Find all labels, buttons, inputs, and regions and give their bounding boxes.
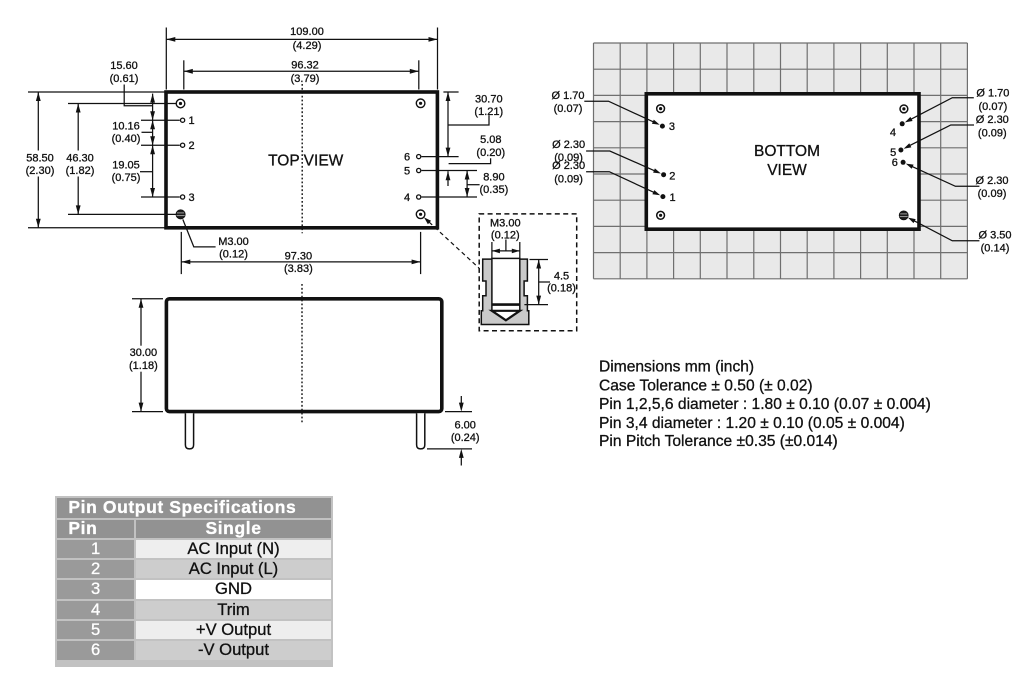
table row pin 1: AC Input (N)	[57, 540, 133, 558]
bottom view mounting hole top-left	[657, 105, 665, 113]
svg-text:(0.35): (0.35)	[480, 184, 509, 196]
svg-text:30.00: 30.00	[130, 347, 158, 359]
svg-text:30.70: 30.70	[475, 94, 503, 106]
bottom view pcb grid	[594, 43, 968, 279]
table header: Pin Output Specifications	[57, 498, 331, 518]
pin output specifications table	[55, 496, 333, 667]
dimension 10.16 (0.40)	[112, 120, 155, 145]
svg-text:(1.82): (1.82)	[66, 165, 95, 177]
top view case outline	[166, 92, 437, 228]
top view mounting hole bottom-left (M3)	[176, 210, 185, 219]
svg-text:Ø 2.30: Ø 2.30	[552, 139, 585, 151]
svg-text:(3.83): (3.83)	[284, 263, 313, 275]
svg-text:(0.09): (0.09)	[554, 173, 583, 185]
svg-text:1: 1	[669, 192, 675, 204]
bottom view pin 1	[660, 192, 675, 204]
svg-text:(1.18): (1.18)	[129, 360, 158, 372]
pin 4	[404, 192, 477, 204]
bottom view pin 6	[892, 157, 906, 169]
svg-text:(0.07): (0.07)	[554, 103, 583, 115]
bottom view mounting hole top-right	[900, 105, 908, 113]
label dia 2.30 (0.09) left upper with leader to pin 2	[552, 139, 661, 173]
pin 3	[141, 192, 195, 204]
svg-text:BOTTOM: BOTTOM	[754, 143, 820, 160]
svg-text:Pin 1,2,5,6 diameter : 1.80 ±: Pin 1,2,5,6 diameter : 1.80 ± 0.10 (0.07…	[599, 396, 931, 413]
side view centerline	[301, 284, 303, 424]
label dia 2.30 (0.09) left lower with leader to pin 1	[552, 160, 660, 195]
dimension 96.32 (3.79)	[184, 58, 419, 90]
svg-text:97.30: 97.30	[285, 251, 313, 263]
mounting hole detail dashed box	[479, 214, 577, 331]
bottom view pin 3	[660, 121, 675, 133]
svg-text:(0.75): (0.75)	[112, 172, 141, 184]
svg-text:10.16: 10.16	[112, 120, 140, 132]
svg-text:TOP VIEW: TOP VIEW	[268, 153, 344, 170]
svg-text:(0.14): (0.14)	[981, 242, 1010, 254]
top view centerline	[301, 84, 303, 233]
label dia 2.30 (0.09) right lower with leader to pin 6	[906, 164, 1009, 200]
pin 1	[141, 115, 195, 127]
dimension 6.00 (0.24)	[427, 396, 480, 466]
dashed leader to mounting hole detail	[424, 217, 479, 268]
top view mounting hole bottom-right	[416, 210, 425, 219]
svg-text:(0.18): (0.18)	[547, 282, 576, 294]
bottom view title	[754, 143, 820, 179]
svg-text:(0.09): (0.09)	[978, 128, 1007, 140]
table row pin 4: Trim	[57, 601, 133, 619]
dimension 97.30 (3.83)	[181, 232, 420, 275]
svg-text:M3.00: M3.00	[218, 236, 249, 248]
svg-text:5: 5	[404, 166, 410, 178]
svg-text:109.00: 109.00	[290, 26, 324, 38]
bottom view pin 4	[890, 121, 905, 139]
svg-text:3: 3	[669, 121, 675, 133]
dimension 5.08 (0.20)	[446, 134, 506, 186]
dimension 30.00 (1.18)	[124, 299, 164, 412]
dimension 8.90 (0.35)	[465, 171, 509, 198]
svg-text:96.32: 96.32	[291, 59, 319, 71]
svg-text:(4.29): (4.29)	[293, 40, 322, 52]
dimension 4.5 (0.18)	[524, 260, 575, 305]
svg-text:58.50: 58.50	[26, 152, 54, 164]
label dia 2.30 (0.09) right upper with leader to pin 5	[904, 114, 1009, 149]
svg-text:Ø 1.70: Ø 1.70	[551, 90, 584, 102]
pin 5	[404, 166, 477, 178]
bottom view case outline	[646, 94, 919, 229]
svg-text:VIEW: VIEW	[767, 162, 807, 179]
pin 2	[141, 140, 195, 152]
bottom view pin 2	[661, 170, 675, 182]
svg-text:3: 3	[188, 192, 194, 204]
pin 6	[404, 152, 459, 164]
svg-text:Dimensions mm (inch): Dimensions mm (inch)	[599, 358, 754, 375]
notes text block	[599, 358, 931, 449]
svg-text:(0.20): (0.20)	[476, 147, 505, 159]
svg-text:(0.12): (0.12)	[219, 248, 248, 260]
table row pin 5: +V Output	[57, 621, 133, 639]
table row pin 3: GND	[57, 580, 133, 598]
svg-text:4: 4	[404, 192, 410, 204]
svg-text:2: 2	[188, 140, 194, 152]
label dia 1.70 (0.07) left with leader to pin 3	[551, 90, 659, 125]
dimension 15.60 (0.61)	[110, 60, 155, 120]
label dia 1.70 (0.07) right with leader to pin 4	[905, 87, 1010, 122]
top view mounting hole top-right	[416, 99, 425, 108]
svg-text:6.00: 6.00	[454, 419, 475, 431]
svg-text:(0.07): (0.07)	[979, 101, 1008, 113]
top view mounting hole top-left	[176, 99, 185, 108]
dimension M3.00 (0.12) bore	[490, 218, 521, 258]
svg-text:Ø 3.50: Ø 3.50	[978, 230, 1011, 242]
svg-text:Ø 1.70: Ø 1.70	[976, 87, 1009, 99]
svg-text:Case Tolerance ± 0.50 (± 0.02): Case Tolerance ± 0.50 (± 0.02)	[599, 378, 813, 395]
svg-text:(0.24): (0.24)	[451, 432, 480, 444]
svg-text:1: 1	[188, 115, 194, 127]
svg-text:4.5: 4.5	[554, 270, 569, 282]
label dia 3.50 (0.14) with leader to mounting hole	[908, 218, 1012, 255]
bottom view pin 5	[890, 147, 903, 159]
table row pin 2: AC Input (L)	[57, 560, 133, 578]
table row pin 6: -V Output	[57, 641, 133, 659]
svg-text:4: 4	[890, 127, 896, 139]
svg-text:6: 6	[404, 152, 410, 164]
dimension 19.05 (0.75)	[112, 145, 155, 197]
dimension 58.50 (2.30)	[20, 92, 166, 228]
svg-text:46.30: 46.30	[66, 152, 94, 164]
svg-text:Pin 3,4 diameter : 1.20 ± 0.10: Pin 3,4 diameter : 1.20 ± 0.10 (0.05 ± 0…	[599, 415, 905, 432]
svg-text:(0.40): (0.40)	[112, 133, 141, 145]
side view case outline	[166, 299, 441, 412]
svg-text:15.60: 15.60	[110, 60, 138, 72]
svg-text:(0.61): (0.61)	[110, 73, 139, 85]
svg-text:M3.00: M3.00	[490, 218, 521, 230]
svg-text:Ø 2.30: Ø 2.30	[975, 175, 1008, 187]
svg-text:(0.09): (0.09)	[978, 188, 1007, 200]
svg-text:(1.21): (1.21)	[474, 106, 503, 118]
side view left pin leg	[185, 413, 193, 449]
table header: Pin / Single	[57, 520, 133, 538]
svg-text:8.90: 8.90	[483, 171, 504, 183]
svg-text:Pin Pitch Tolerance ±0.35 (±0.: Pin Pitch Tolerance ±0.35 (±0.014)	[599, 433, 838, 450]
threaded insert cross-section	[481, 258, 529, 324]
svg-text:(2.30): (2.30)	[26, 165, 55, 177]
svg-text:(3.79): (3.79)	[291, 73, 320, 85]
bottom view mounting hole bottom-right (3.50)	[899, 211, 908, 220]
svg-text:2: 2	[669, 170, 675, 182]
svg-text:5.08: 5.08	[480, 134, 501, 146]
label M3.00 (0.12) with leader	[183, 219, 249, 260]
svg-text:Ø 2.30: Ø 2.30	[552, 160, 585, 172]
dimension 46.30 (1.82)	[60, 104, 176, 215]
svg-text:Ø 2.30: Ø 2.30	[976, 114, 1009, 126]
dimension 109.00 (4.29)	[166, 25, 437, 90]
side view right pin leg	[417, 413, 425, 449]
svg-text:19.05: 19.05	[112, 159, 140, 171]
bottom view mounting hole bottom-left	[657, 211, 665, 219]
dimension 30.70 (1.21)	[443, 92, 503, 157]
svg-text:6: 6	[892, 157, 898, 169]
